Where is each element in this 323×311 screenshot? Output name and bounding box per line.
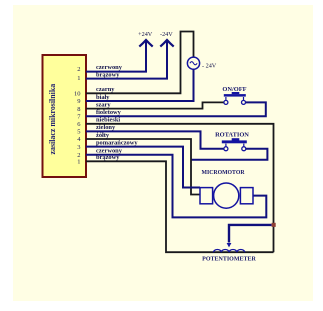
- svg-text:MICROMOTOR: MICROMOTOR: [201, 170, 245, 176]
- wire ROTATION return to motor feed: [191, 149, 267, 160]
- svg-text:żółty: żółty: [96, 132, 110, 139]
- wire pin1b brazowy to potentiometer left: [86, 161, 274, 252]
- svg-text:1: 1: [77, 75, 80, 82]
- wire pin6 niebieski to potentiometer right: [86, 124, 274, 252]
- svg-text:8: 8: [77, 106, 80, 113]
- svg-text:fioletowy: fioletowy: [96, 109, 122, 116]
- svg-text:- 24V: - 24V: [202, 62, 217, 69]
- wire pin4 zolty to motor left brush: [86, 139, 200, 195]
- svg-text:czerwony: czerwony: [96, 64, 123, 71]
- pin numbers: [74, 66, 81, 166]
- svg-text:9: 9: [77, 98, 80, 105]
- power arrow -24V: [160, 40, 173, 47]
- wire pin8 szary to ON/OFF switch: [86, 102, 224, 108]
- wire pin2 czerwony to +24V: [86, 42, 146, 72]
- svg-text:ROTATION: ROTATION: [215, 132, 249, 139]
- svg-text:1: 1: [77, 159, 80, 166]
- motor M1 MICROMOTOR: [200, 170, 253, 208]
- wire ON/OFF return to pin7 fioletowy: [86, 102, 266, 116]
- svg-text:biały: biały: [96, 94, 110, 101]
- wire pin5 zielony to ROTATION switch: [86, 131, 224, 148]
- svg-text:-24V: -24V: [160, 31, 173, 38]
- svg-text:brązowy: brązowy: [96, 154, 120, 161]
- wire pin1 brazowy to -24V: [86, 42, 167, 79]
- node junction red square: [272, 223, 276, 227]
- svg-text:2: 2: [77, 66, 80, 73]
- wire pin2b czerwony to motor right return: [86, 155, 266, 218]
- AC source G1: [187, 57, 199, 69]
- svg-text:zasilacz mikrosilnika: zasilacz mikrosilnika: [48, 84, 57, 155]
- potentiometer P1: [202, 250, 256, 263]
- wire pin3 pomaranczowy to motor left brush upper: [86, 147, 200, 188]
- wire pin10 czarny to AC source top: [86, 32, 194, 94]
- wiper arrow: [227, 243, 232, 247]
- svg-text:zielony: zielony: [96, 124, 116, 131]
- connector J1 zasilacz mikrosilnika (yellow box): [43, 55, 87, 177]
- switch S2 ROTATION: [215, 132, 249, 151]
- svg-text:szary: szary: [96, 101, 111, 108]
- power arrow +24V: [139, 40, 152, 47]
- svg-text:pomarańczowy: pomarańczowy: [96, 139, 138, 146]
- svg-text:5: 5: [77, 129, 80, 136]
- switch S1 ON/OFF: [222, 86, 246, 104]
- svg-text:czarny: czarny: [96, 86, 115, 93]
- svg-text:+24V: +24V: [138, 31, 153, 38]
- svg-text:3: 3: [77, 144, 80, 151]
- svg-text:10: 10: [74, 91, 81, 98]
- wire AC source bottom to pin9 bialy: [86, 69, 194, 101]
- svg-text:POTENTIOMETER: POTENTIOMETER: [202, 256, 256, 262]
- svg-text:brązowy: brązowy: [96, 71, 120, 78]
- wire wiper branch: [229, 225, 272, 243]
- svg-text:niebieski: niebieski: [96, 117, 120, 124]
